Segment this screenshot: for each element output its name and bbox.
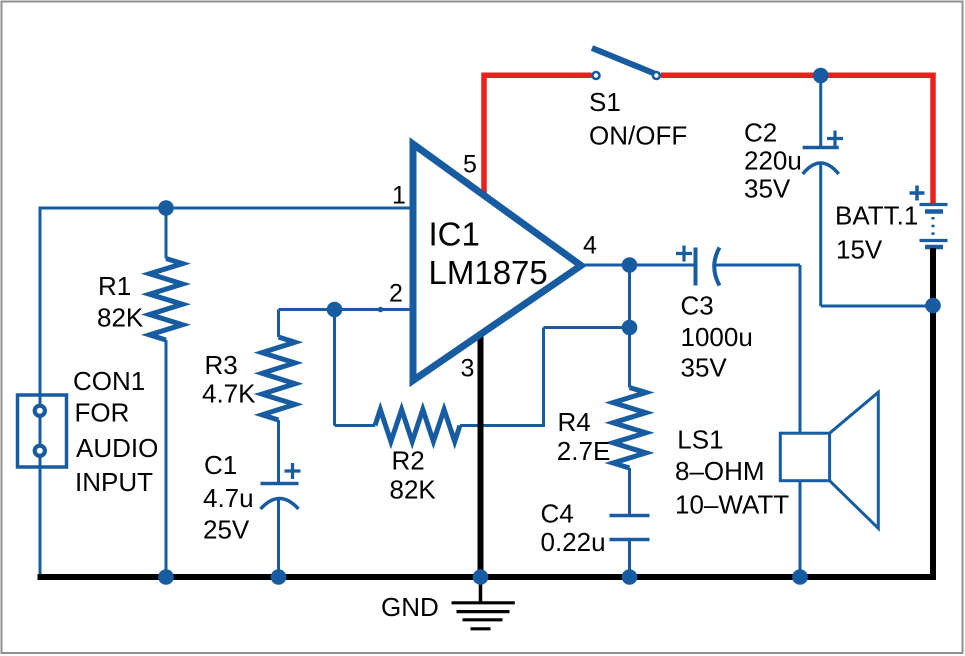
resistor R4 (613, 388, 646, 515)
node: output pin 4 junction (622, 257, 638, 273)
label CON1 FOR AUDIO INPUT (73, 366, 158, 497)
node: R1 top junction (158, 200, 174, 216)
svg-text:5: 5 (463, 151, 477, 179)
svg-text:1: 1 (392, 182, 406, 210)
svg-text:1000u: 1000u (681, 322, 753, 352)
label C4 0.22u (541, 499, 606, 558)
svg-text:2: 2 (389, 280, 403, 308)
label R1 82K (97, 271, 144, 333)
wire: black battery negative down (930, 248, 936, 580)
capacitor C2 (803, 76, 843, 307)
resistor R1 (150, 208, 183, 577)
svg-text:220u: 220u (744, 146, 802, 176)
svg-text:3: 3 (461, 355, 475, 383)
wire: red V+ from switch to battery (661, 73, 936, 204)
node: pin3 ground / GND (473, 569, 489, 585)
svg-text:C2: C2 (744, 118, 777, 148)
svg-text:25V: 25V (203, 515, 250, 545)
wire: pin 1 horizontal (39, 207, 414, 210)
node: C2 top on V+ rail (813, 68, 829, 84)
svg-text:R1: R1 (98, 271, 131, 301)
label R2 82K (390, 446, 437, 505)
wire: pin4 node down to R4 (628, 265, 631, 388)
ground (452, 579, 515, 629)
wire: feedback loop to R2 (335, 310, 630, 428)
node: C2 bottom / battery negative (925, 298, 941, 314)
svg-text:GND: GND (381, 592, 439, 622)
pin 5 (463, 151, 477, 179)
label C1 4.7u 25V (203, 450, 254, 545)
wire: C2 bottom to battery negative (821, 305, 933, 308)
label R3 4.7K (202, 350, 256, 409)
connector CON1 (18, 395, 67, 467)
switch S1 (592, 48, 660, 79)
svg-text:C1: C1 (204, 450, 237, 480)
wire: black pin 3 to ground bus (478, 333, 484, 577)
svg-text:CON1: CON1 (73, 366, 145, 396)
svg-text:AUDIO: AUDIO (76, 433, 158, 463)
svg-text:LS1: LS1 (677, 425, 723, 455)
svg-text:R2: R2 (392, 446, 425, 476)
svg-text:35V: 35V (681, 353, 728, 383)
svg-text:0.22u: 0.22u (541, 527, 606, 557)
label R4 2.7E (557, 407, 611, 466)
svg-text:35V: 35V (744, 174, 791, 204)
svg-text:LM1875: LM1875 (429, 254, 548, 291)
label IC1 LM1875 (429, 216, 548, 292)
label GND (381, 592, 439, 622)
pin 1 (392, 182, 406, 210)
wire: red V+ from pin 5 up (481, 75, 591, 196)
svg-text:4.7K: 4.7K (202, 379, 256, 409)
svg-text:BATT.1: BATT.1 (835, 201, 918, 231)
node: R1 ground (158, 569, 174, 585)
node: feedback junction (622, 320, 638, 336)
svg-text:10–WATT: 10–WATT (675, 490, 789, 520)
label C2 220u 35V (744, 118, 802, 204)
wire: speaker to ground bus (799, 481, 802, 578)
node: C1 ground (271, 569, 287, 585)
pin 3 (461, 355, 475, 383)
node: pin 2 junction (327, 302, 343, 318)
capacitor C1 (261, 463, 301, 577)
svg-text:82K: 82K (390, 475, 437, 505)
svg-text:C4: C4 (541, 499, 574, 529)
wire: black ground bus (38, 574, 937, 580)
wire: output pin 4 (581, 264, 694, 267)
svg-text:82K: 82K (97, 303, 144, 333)
label BATT.1 15V (835, 201, 918, 265)
speaker LS1 (780, 392, 878, 528)
pin 2 (389, 280, 403, 308)
capacitor C3 (676, 246, 720, 286)
op-amp IC1 LM1875 (413, 144, 581, 381)
battery BATT.1 (910, 186, 948, 248)
svg-text:8–OHM: 8–OHM (675, 456, 765, 486)
svg-text:INPUT: INPUT (75, 467, 153, 497)
wire: pin 2 horizontal (279, 308, 414, 311)
svg-text:2.7E: 2.7E (557, 436, 611, 466)
svg-text:FOR: FOR (75, 398, 130, 428)
label LS1 8-OHM 10-WATT (675, 425, 789, 520)
svg-text:IC1: IC1 (429, 216, 480, 253)
wire: input left vertical (39, 208, 42, 577)
svg-text:ON/OFF: ON/OFF (589, 121, 687, 151)
svg-text:R3: R3 (205, 350, 238, 380)
capacitor C4 (610, 516, 650, 578)
svg-text:15V: 15V (836, 235, 883, 265)
label S1 ON/OFF (589, 87, 687, 151)
svg-text:C3: C3 (681, 291, 714, 321)
svg-text:4.7u: 4.7u (203, 483, 254, 513)
svg-text:S1: S1 (589, 87, 621, 117)
pin 4 (583, 232, 597, 260)
solder blob on pin 2 wire (378, 307, 384, 313)
resistor R3 (262, 310, 295, 483)
label C3 1000u 35V (681, 291, 753, 383)
svg-text:R4: R4 (558, 407, 591, 437)
resistor R2 (375, 410, 460, 442)
wire: C3 to speaker (714, 265, 800, 434)
node: C4 ground (622, 569, 638, 585)
svg-text:4: 4 (583, 232, 597, 260)
node: speaker ground (792, 569, 808, 585)
